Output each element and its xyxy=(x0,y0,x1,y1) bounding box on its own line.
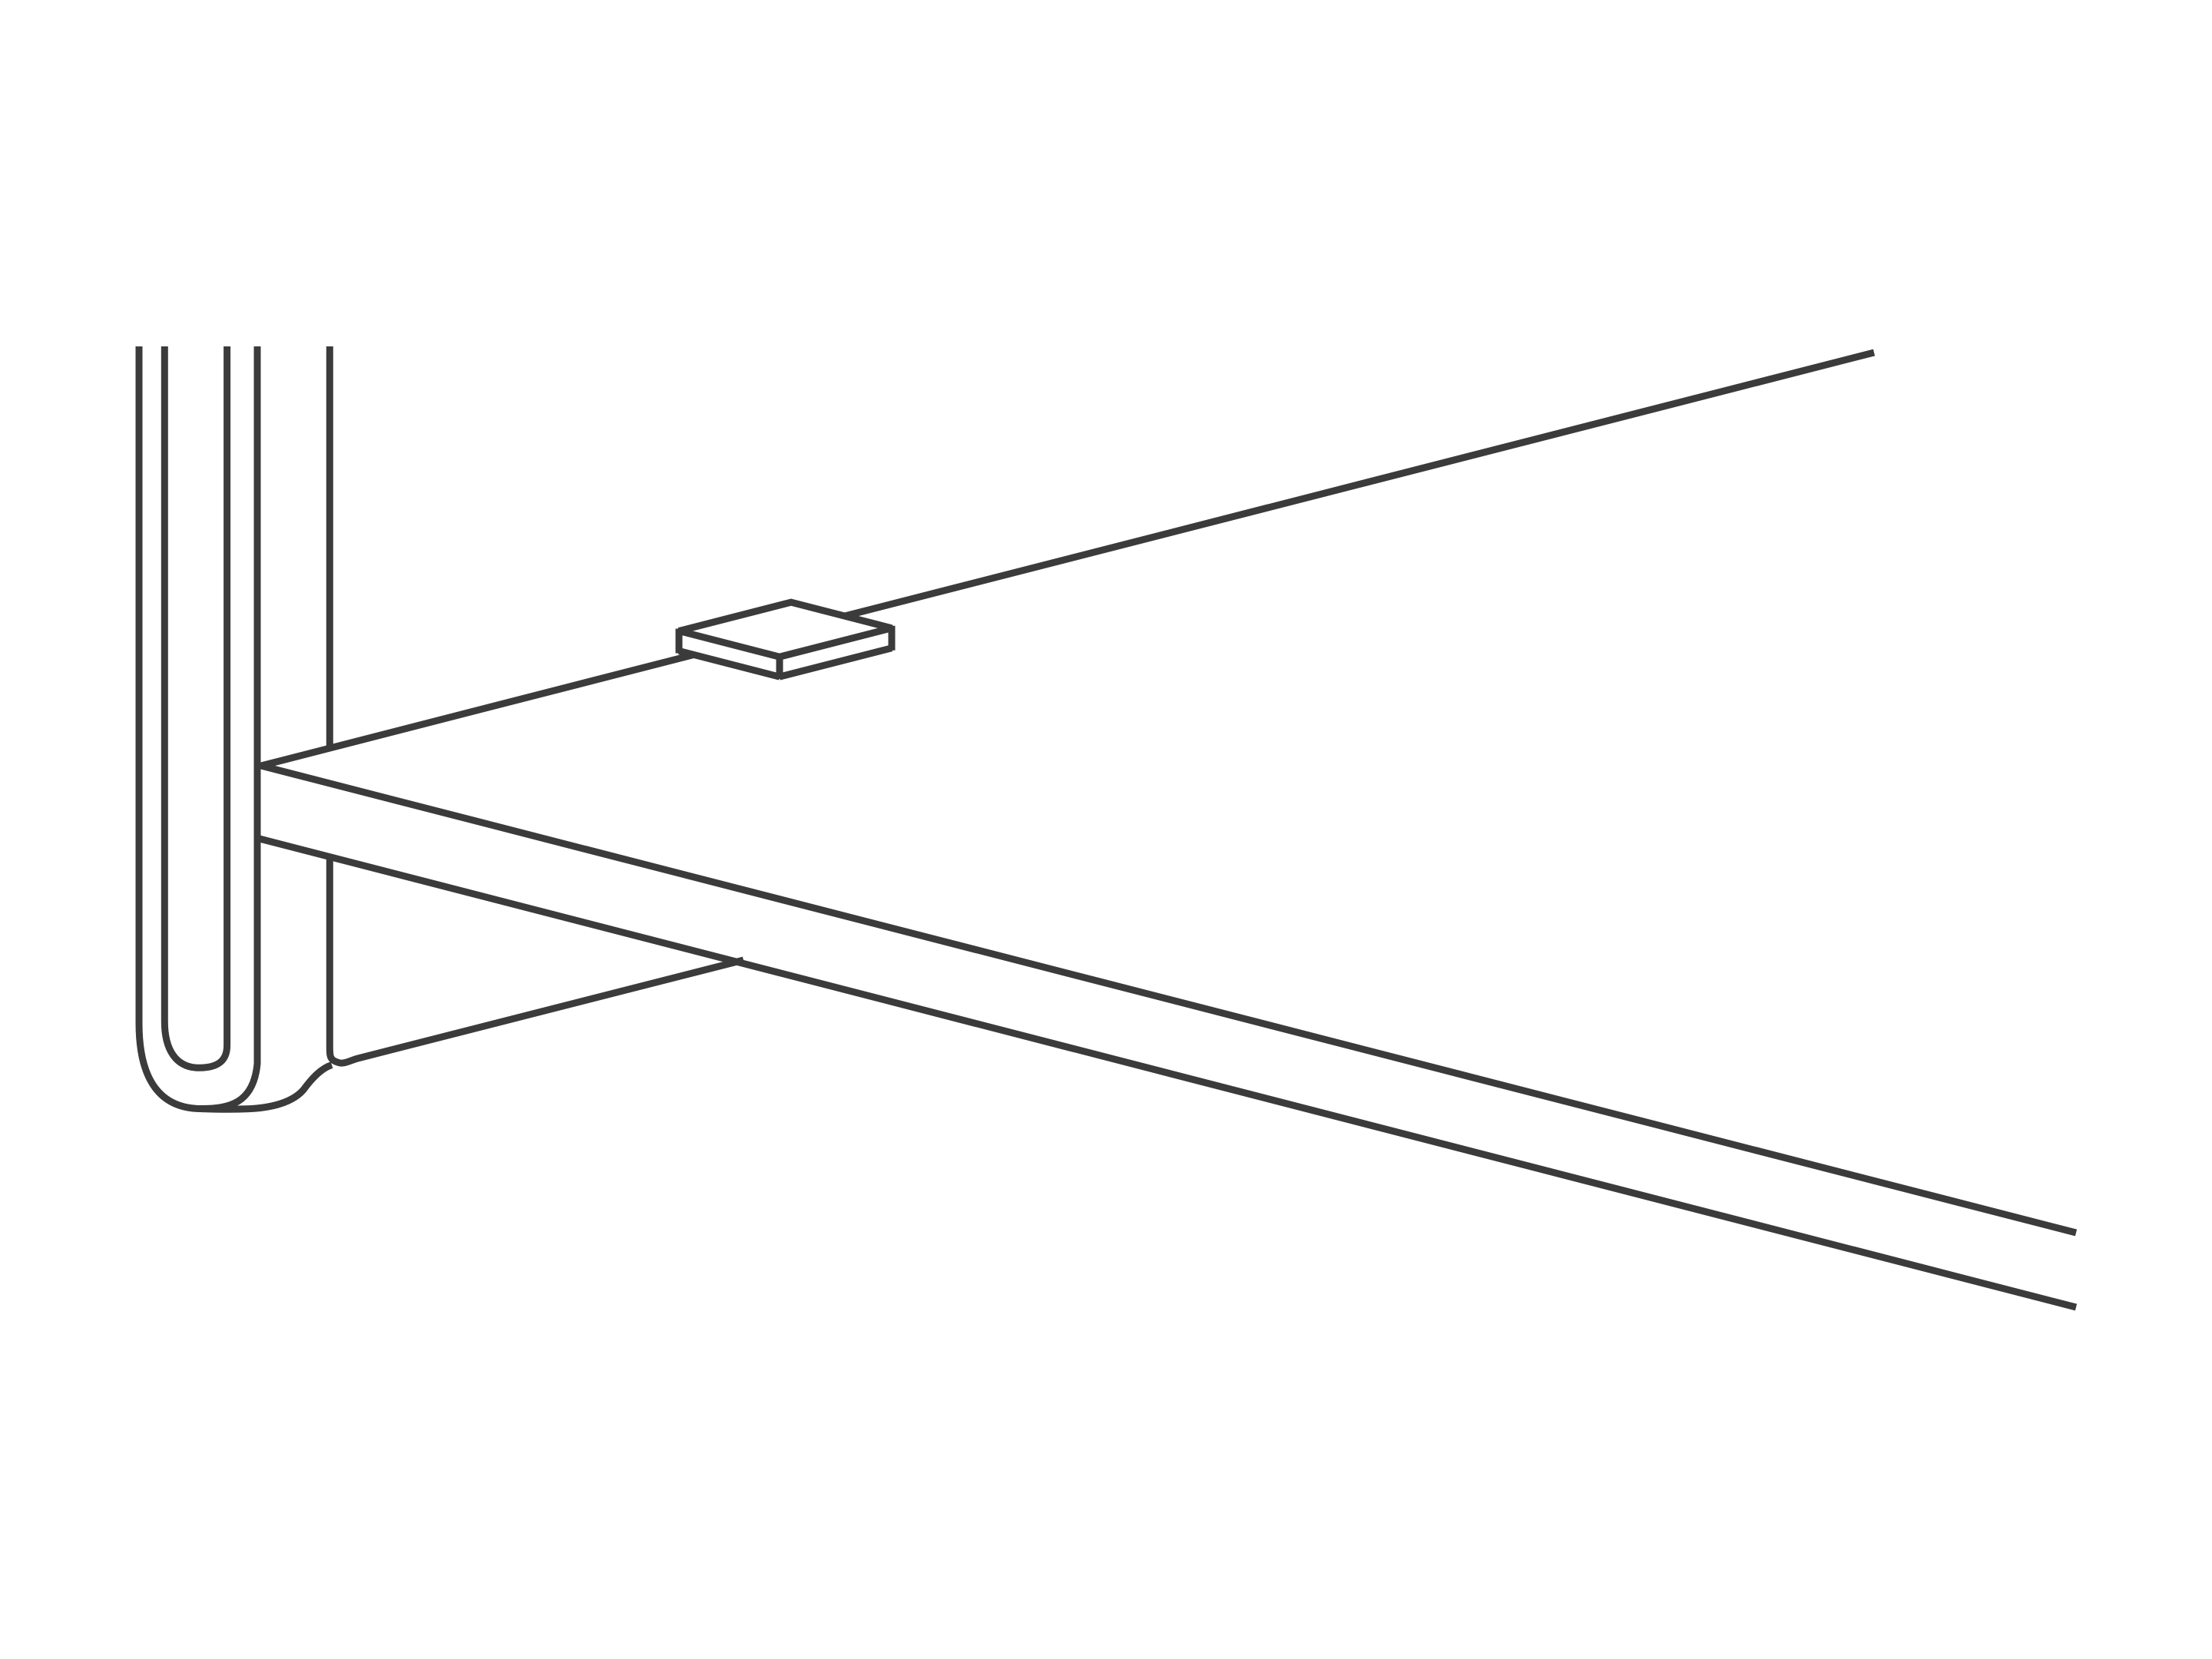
tabletop back edge left segment, corner, and front top edge xyxy=(261,655,2076,1233)
pad bottom right edge xyxy=(780,648,892,677)
leg front U (outer contour: left edge, bottom bend, right edge) xyxy=(139,346,257,1109)
leg back edge upper segment xyxy=(326,346,333,748)
pad left vertical edge xyxy=(676,629,683,654)
tabletop front bottom edge xyxy=(257,838,2076,1307)
leg front U inner contour xyxy=(164,346,227,1068)
pad right vertical edge xyxy=(889,626,896,651)
pad top face xyxy=(679,602,892,657)
leg back edge lower segment bending into bottom rail xyxy=(329,856,743,1063)
pad bottom left edge xyxy=(679,651,780,677)
tabletop back edge right segment xyxy=(845,353,1874,616)
leg underside back silhouette from rail down to the U bottom xyxy=(201,1065,332,1110)
pad bottom vertical edge xyxy=(777,654,783,679)
